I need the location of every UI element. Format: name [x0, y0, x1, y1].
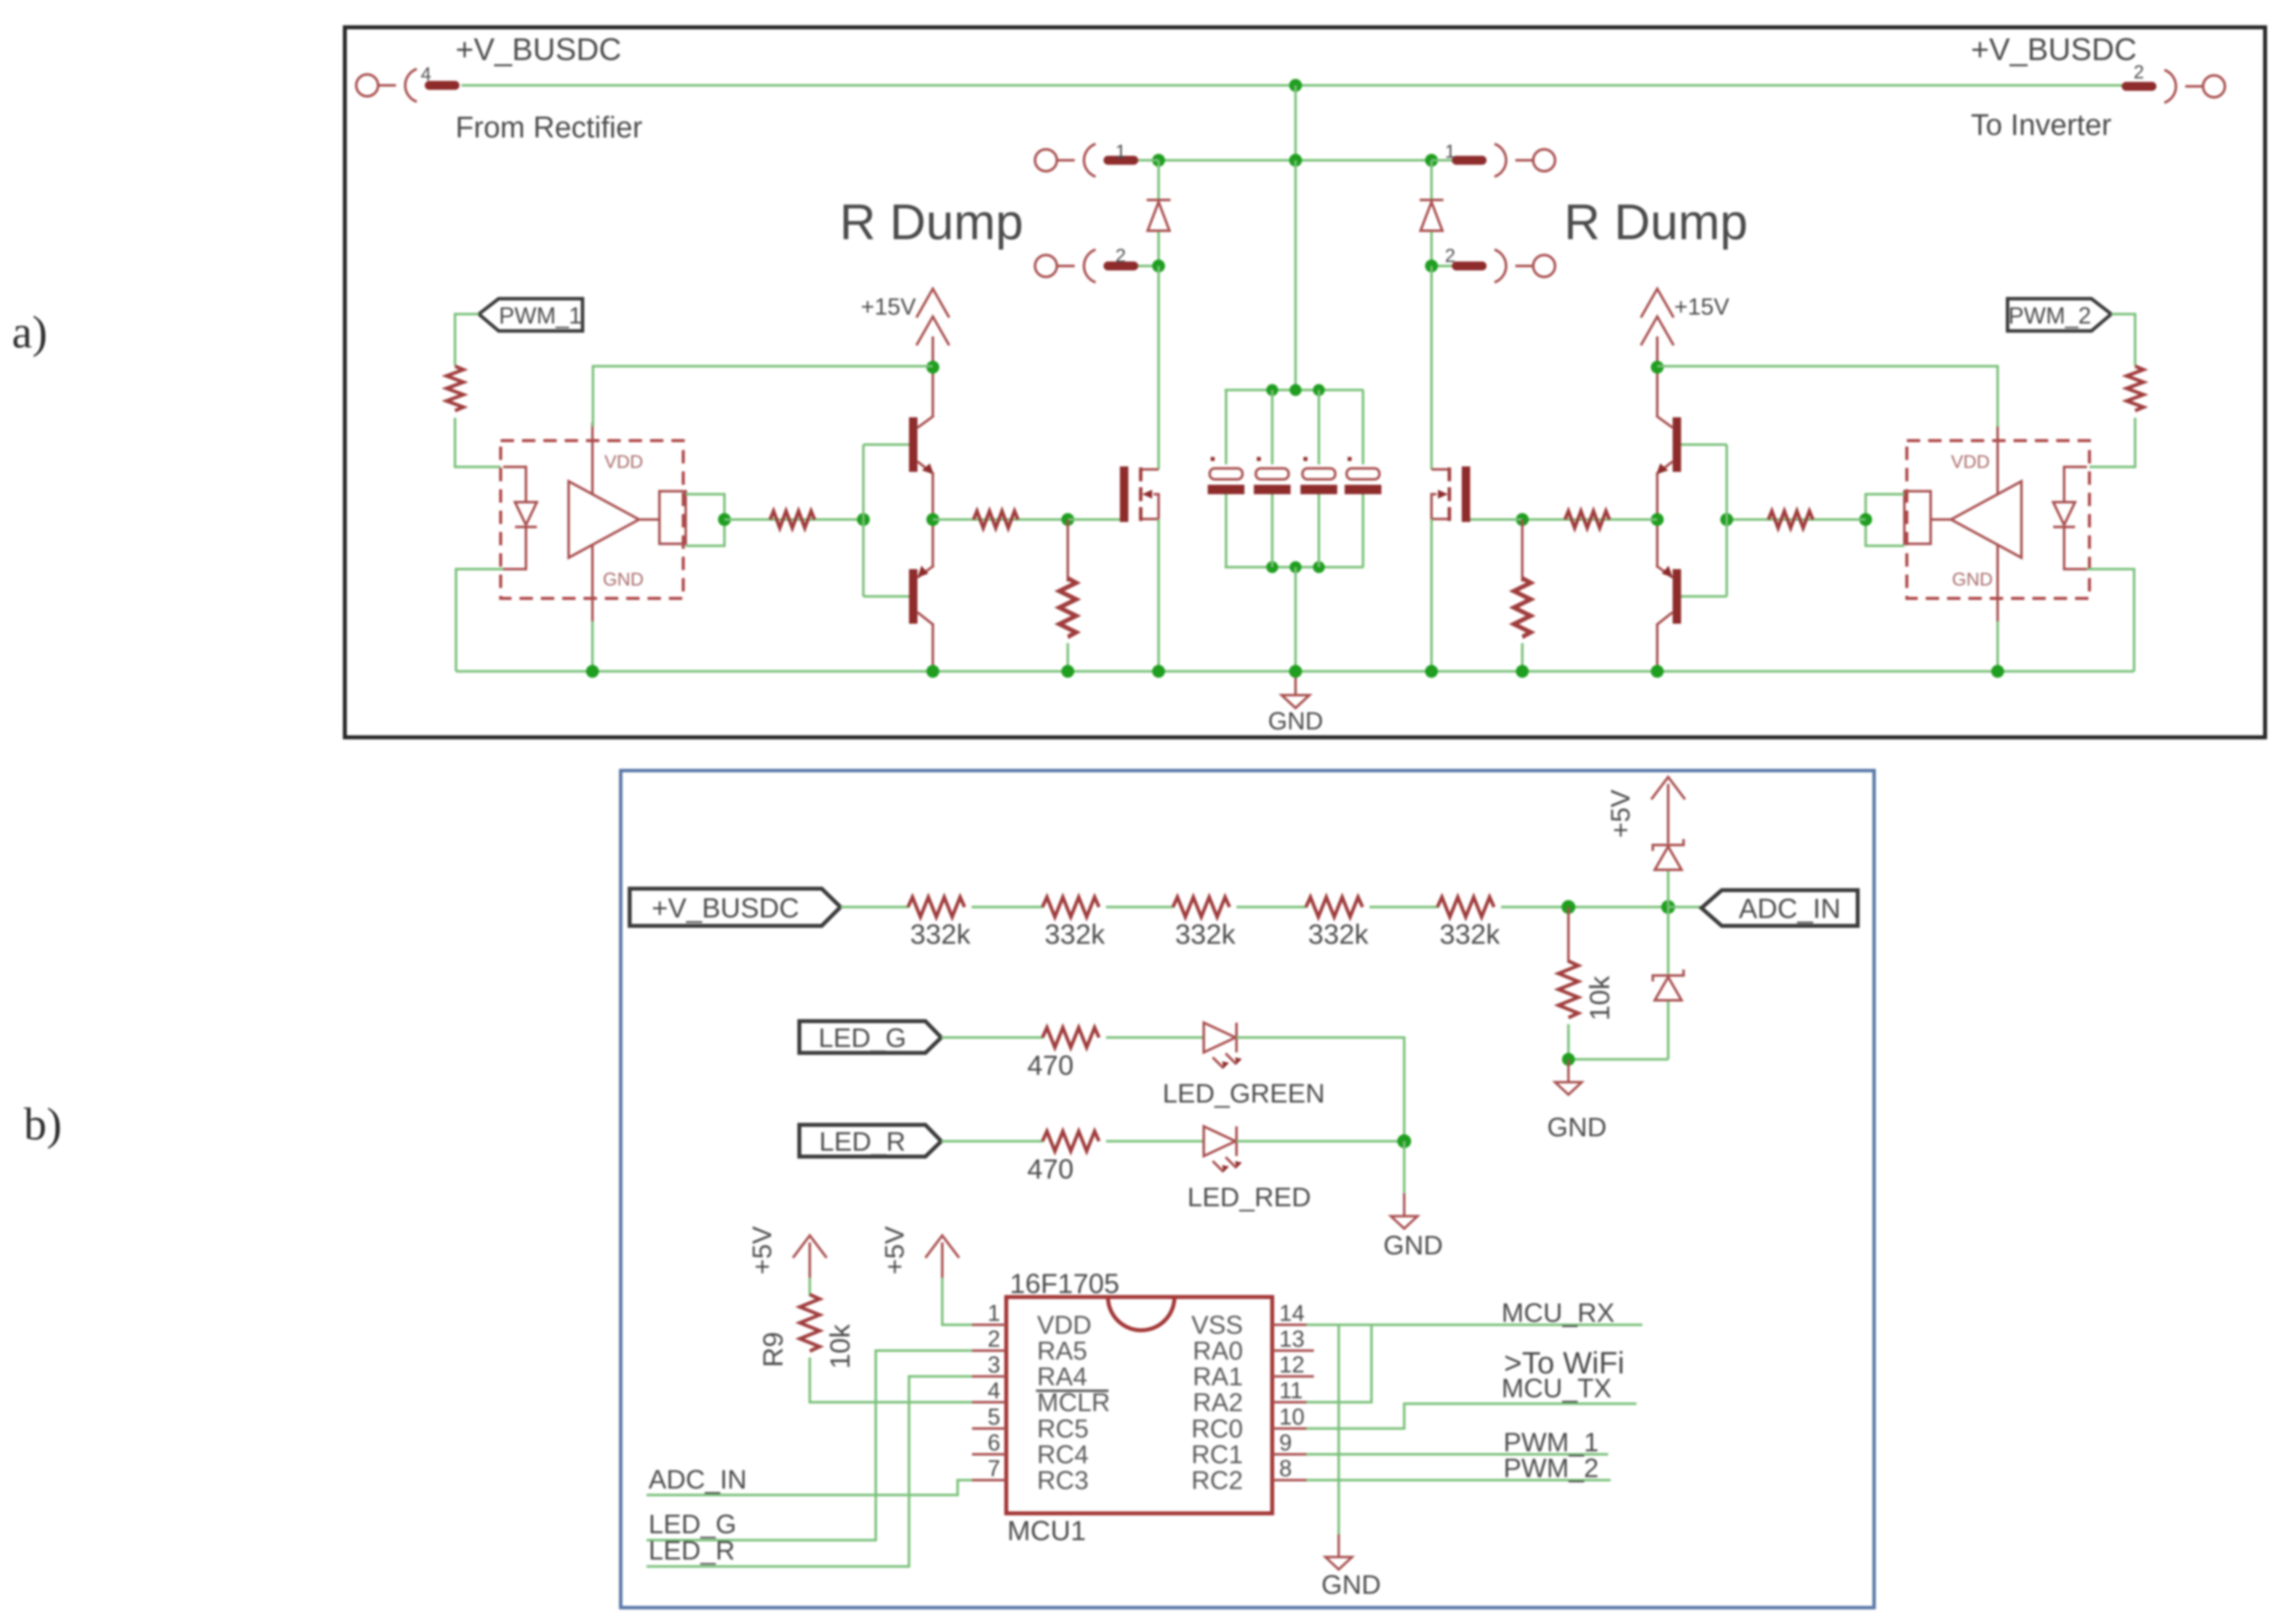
- LED LED_RED: [1204, 1126, 1242, 1172]
- svg-text:RC2: RC2: [1191, 1466, 1243, 1495]
- junction +15V rail: [1651, 361, 1664, 374]
- supply +5V (MCU VDD): [925, 1235, 959, 1291]
- svg-text:13: 13: [1279, 1326, 1304, 1352]
- wire opto U2 LED return to ground rail: [2087, 569, 2134, 671]
- svg-text:470: 470: [1027, 1153, 1073, 1184]
- wire base tie vertical: [1726, 445, 1728, 596]
- wire +15V rail to opto VDD: [593, 366, 933, 427]
- svg-text:8: 8: [1279, 1455, 1292, 1481]
- wire R2-R3: [1106, 906, 1174, 909]
- resistor R-pwm2 (vertical): [2127, 366, 2144, 411]
- svg-text:14: 14: [1279, 1300, 1304, 1326]
- wire opto U2 GND to ground rail: [1997, 621, 1999, 671]
- supply +15V (right): [1641, 289, 1674, 367]
- svg-text:RC1: RC1: [1191, 1440, 1243, 1469]
- wire base tie vertical: [862, 445, 865, 596]
- opto U1 VDD pin: [591, 423, 594, 494]
- wire cap C4 bottom lead: [1363, 494, 1364, 567]
- svg-text:RA0: RA0: [1193, 1337, 1243, 1365]
- wire LED2 to junction: [1236, 1140, 1404, 1143]
- svg-text:12: 12: [1279, 1352, 1304, 1377]
- resistor R-base-right: [1768, 511, 1813, 528]
- svg-text:LED_G: LED_G: [818, 1023, 906, 1053]
- wire Q3 collector to +15V: [1656, 367, 1659, 417]
- wire opto U1 GND to ground rail: [591, 621, 594, 671]
- MCU1 16F1705 package: [1006, 1297, 1272, 1513]
- pin 9 stub: [1272, 1453, 1306, 1456]
- svg-text:+V_BUSDC: +V_BUSDC: [651, 892, 799, 923]
- svg-text:3: 3: [987, 1352, 1000, 1377]
- wire PWM_1 to resistor: [455, 314, 479, 366]
- wire R7 to LED1: [1106, 1037, 1204, 1039]
- capacitor C1: [1208, 457, 1244, 494]
- svg-text:1: 1: [1115, 141, 1126, 162]
- wire VSS ground drop: [1338, 1325, 1340, 1534]
- transistor Q2 PNP (lower): [909, 566, 934, 625]
- svg-text:5: 5: [987, 1404, 1000, 1429]
- pin 5 stub: [972, 1428, 1006, 1430]
- pin 11 stub: [1272, 1401, 1306, 1404]
- svg-text:GND: GND: [1547, 1112, 1607, 1142]
- junction row left: [1152, 154, 1165, 167]
- wire conn2-right stub: [1431, 265, 1452, 267]
- svg-text:VDD: VDD: [1037, 1311, 1092, 1340]
- resistor R3 332k: [1173, 897, 1230, 917]
- pin 13 stub: [1272, 1350, 1314, 1352]
- optocoupler U1 dashed package: [501, 441, 683, 598]
- wire cap C1 bottom lead: [1225, 494, 1226, 567]
- opto U1 input LED: [503, 467, 537, 569]
- svg-text:+15V: +15V: [861, 293, 916, 320]
- junction base tie left: [857, 513, 870, 526]
- wire +V_BUSDC top bus: [461, 84, 2134, 87]
- junction 10k gnd node: [1562, 1053, 1575, 1066]
- optocoupler U2 dashed package: [1907, 441, 2089, 598]
- capacitor C3: [1301, 457, 1337, 494]
- resistor R5 332k: [1437, 897, 1494, 917]
- svg-text:LED_RED: LED_RED: [1187, 1182, 1311, 1212]
- wire junction to ground: [1403, 1141, 1406, 1193]
- svg-text:RA4: RA4: [1037, 1363, 1087, 1391]
- svg-text:RC5: RC5: [1037, 1415, 1089, 1443]
- wire conn1-right stub: [1431, 159, 1452, 162]
- pin 2 stub: [972, 1350, 1006, 1352]
- svg-text:470: 470: [1027, 1049, 1073, 1081]
- wire gate node to MOSFET gate: [1068, 519, 1122, 521]
- wire resistor to opto input: [455, 418, 501, 467]
- panel a border frame: [345, 27, 2265, 737]
- wire ADC node to flag: [1668, 906, 1701, 909]
- svg-text:R Dump: R Dump: [840, 195, 1023, 250]
- svg-text:RC0: RC0: [1191, 1415, 1243, 1443]
- svg-text:RC3: RC3: [1037, 1466, 1089, 1495]
- wire LED_R to pin 3: [647, 1376, 972, 1566]
- junction row centre: [1289, 154, 1302, 167]
- opto U1 amplifier triangle: [569, 481, 639, 558]
- net flag +V_BUSDC: [630, 889, 841, 926]
- svg-text:4: 4: [987, 1377, 1000, 1403]
- pin 6 stub: [972, 1453, 1006, 1456]
- wire centre vertical to capacitor bank: [1295, 160, 1297, 390]
- opto U2 amplifier triangle: [1951, 481, 2021, 558]
- pin 8 stub: [1272, 1479, 1306, 1482]
- pin 1 stub: [972, 1324, 1006, 1326]
- junction T2 source at rail: [1425, 665, 1438, 678]
- svg-text:9: 9: [1279, 1429, 1292, 1455]
- wire Q4 collector to ground rail: [1656, 624, 1659, 671]
- wire LED_G flag to R7: [941, 1037, 1043, 1039]
- wire R-dump connector row: [1159, 159, 1431, 162]
- wire opto output to base resistor: [724, 519, 863, 521]
- wire Q1 collector to +15V: [932, 367, 934, 417]
- svg-text:6: 6: [987, 1429, 1000, 1455]
- net flag PWM_2: [2008, 299, 2111, 331]
- svg-text:RA5: RA5: [1037, 1337, 1087, 1365]
- wire flag to R1: [841, 906, 909, 909]
- resistor R1 332k: [908, 897, 965, 917]
- svg-text:MCU1: MCU1: [1007, 1515, 1086, 1546]
- opto U2 GND pin: [1997, 545, 1999, 621]
- junction opto GND at rail: [1991, 665, 2004, 678]
- svg-text:11: 11: [1279, 1377, 1303, 1403]
- svg-text:2: 2: [987, 1326, 1000, 1352]
- supply +5V (ADC clamp): [1651, 777, 1685, 833]
- wire ground rail: [456, 670, 2134, 673]
- opto U2 output stage square: [1904, 491, 1951, 544]
- svg-text:MCLR: MCLR: [1037, 1388, 1110, 1417]
- junction LED cathodes: [1397, 1134, 1411, 1148]
- net flag LED_G: [799, 1021, 941, 1053]
- wire cap C3 bottom lead: [1318, 494, 1320, 567]
- junction gate node left: [1061, 513, 1074, 526]
- svg-text:MCU_TX: MCU_TX: [1501, 1373, 1612, 1403]
- resistor R-gate-right: [1565, 511, 1610, 528]
- wire pin 8 PWM_2: [1306, 1479, 1611, 1482]
- resistor R7 470: [1042, 1028, 1099, 1047]
- wire gate pulldown bottom lead: [1067, 643, 1069, 671]
- svg-text:332k: 332k: [910, 918, 971, 950]
- wire centre vertical from bus to R-dump row: [1295, 85, 1297, 160]
- wire 10k bottom lead to gnd corner: [1568, 1024, 1668, 1059]
- connector X2 To Inverter (mirrored): [2122, 70, 2225, 103]
- pin 7 stub: [972, 1479, 1006, 1482]
- svg-text:PWM_2: PWM_2: [2008, 302, 2091, 328]
- zener diode D4 (lower clamp): [1653, 970, 1684, 1000]
- wire LED1 to corner: [1236, 1038, 1404, 1141]
- junctions cap bank top: [1266, 384, 1278, 396]
- resistor R-pulldown-left (vertical): [1059, 578, 1076, 637]
- svg-text:From Rectifier: From Rectifier: [455, 111, 643, 144]
- wire left branch conn1 to diode: [1158, 160, 1160, 200]
- wire left branch diode to conn2: [1158, 232, 1160, 266]
- connector X4 From Rectifier: [356, 69, 459, 102]
- wire R8 to LED2: [1106, 1140, 1204, 1143]
- svg-text:2: 2: [2134, 62, 2144, 83]
- resistor R2 332k: [1042, 897, 1099, 917]
- wire gate pulldown bottom lead: [1521, 643, 1524, 671]
- junction pulldown at rail: [1516, 665, 1529, 678]
- opto U1 GND pin: [591, 545, 594, 621]
- resistor R6 10k (vertical): [1559, 961, 1578, 1018]
- svg-text:LED_G: LED_G: [649, 1509, 736, 1539]
- wire pin 11 riser to RX row: [1306, 1325, 1371, 1402]
- ground symbol GND (divider): [1555, 1059, 1582, 1095]
- transistor Q4 PNP (lower right): [1656, 566, 1681, 625]
- svg-text:PWM_1: PWM_1: [499, 302, 582, 328]
- resistor R-gate-left: [974, 511, 1018, 528]
- connector X-dump-left pin 1: [1035, 144, 1138, 177]
- connector X-dump-right pin 1 (mirrored): [1452, 144, 1555, 177]
- net flag LED_R: [799, 1125, 941, 1157]
- net flag PWM_1: [479, 299, 583, 331]
- svg-text:VDD: VDD: [1951, 452, 1990, 472]
- wire centre vertical cap bank to ground rail: [1295, 567, 1297, 671]
- wire pin 9 PWM_1: [1306, 1453, 1608, 1456]
- wire 10k top lead: [1567, 907, 1570, 963]
- svg-text:16F1705: 16F1705: [1010, 1268, 1119, 1299]
- svg-text:VDD: VDD: [604, 452, 643, 472]
- wire opto output loop: [1866, 494, 1904, 546]
- svg-text:10: 10: [1279, 1404, 1304, 1429]
- wire opto output loop: [686, 494, 724, 546]
- junctions cap bank bottom: [1266, 561, 1278, 573]
- svg-text:PWM_2: PWM_2: [1503, 1453, 1599, 1483]
- opto U2 VDD pin: [1997, 423, 1999, 494]
- svg-text:+5V: +5V: [880, 1226, 910, 1275]
- wire PNP base stub: [863, 595, 909, 598]
- wire Q2 collector to ground rail: [932, 624, 934, 671]
- wire ADC node to zener D4: [1667, 907, 1670, 974]
- wire gate pulldown top lead: [1067, 520, 1069, 582]
- wire R4-R5: [1369, 906, 1438, 909]
- LED LED_GREEN: [1204, 1023, 1242, 1068]
- connector X-dump-left pin 2: [1035, 250, 1138, 282]
- wire Q3/Q4 emitter junction: [1656, 472, 1659, 568]
- wire cap bank bottom rail: [1225, 566, 1364, 569]
- pin 10 stub: [1272, 1428, 1306, 1430]
- resistor R8 470: [1042, 1131, 1099, 1151]
- connector X-dump-right pin 2 (mirrored): [1452, 250, 1555, 282]
- wire T1 source to ground rail: [1158, 519, 1160, 671]
- wire +5V to zener D3: [1667, 819, 1670, 844]
- svg-text:To Inverter: To Inverter: [1971, 108, 2111, 141]
- freewheel diode D1 (left): [1147, 200, 1171, 231]
- wire ADC_IN to pin 7: [647, 1480, 972, 1495]
- wire VSS pin 14 to MCU_RX: [1306, 1324, 1642, 1326]
- wire +15V rail to opto VDD: [1657, 366, 1998, 427]
- wire emitter output to gate resistor: [1522, 519, 1657, 521]
- wire opto U1 LED return to ground rail: [456, 569, 503, 671]
- svg-text:+V_BUSDC: +V_BUSDC: [455, 32, 621, 67]
- resistor R-pulldown-right (vertical): [1514, 578, 1531, 637]
- wire NPN base stub: [863, 444, 909, 446]
- junction +15V rail: [926, 361, 939, 374]
- wire LED_G to pin 2: [647, 1351, 972, 1540]
- junction left conn2: [1152, 260, 1165, 272]
- junction divider tap (10k): [1561, 900, 1575, 914]
- svg-text:1: 1: [987, 1300, 1000, 1326]
- svg-text:LED_R: LED_R: [819, 1127, 906, 1157]
- svg-text:2: 2: [1445, 246, 1455, 266]
- svg-text:GND: GND: [1383, 1231, 1443, 1260]
- wire right branch diode to conn2: [1431, 232, 1433, 266]
- wire R3-R4: [1236, 906, 1307, 909]
- opto U2 input LED: [2053, 467, 2087, 569]
- svg-text:GND: GND: [1268, 707, 1323, 735]
- svg-text:4: 4: [421, 64, 431, 85]
- wire R1-R2: [972, 906, 1043, 909]
- pin name MCLR (with overbar): [1036, 1388, 1110, 1417]
- MOSFET T2 (right, mirrored): [1431, 466, 1470, 522]
- wire conn1-left stub: [1138, 159, 1159, 162]
- wire NPN base stub: [1681, 444, 1727, 446]
- capacitor C4: [1345, 457, 1381, 494]
- zener diode D3 (upper clamp): [1653, 839, 1684, 870]
- junction ADC node: [1661, 900, 1675, 914]
- wire T2 source to ground rail: [1431, 519, 1433, 671]
- junction opto GND at rail: [586, 665, 599, 678]
- wire resistor to opto input: [2089, 418, 2135, 467]
- wire pin 10 to MCU_TX: [1306, 1404, 1636, 1429]
- svg-text:GND: GND: [603, 569, 644, 589]
- pin 3 stub: [972, 1375, 1006, 1378]
- wire Q1/Q2 emitter junction: [932, 472, 934, 568]
- junction T1 source at rail: [1152, 665, 1165, 678]
- junction ground centre: [1289, 665, 1302, 678]
- wire PNP base stub: [1681, 595, 1727, 598]
- wire cap C4 top lead: [1363, 390, 1364, 464]
- MOSFET T1 (left): [1120, 466, 1159, 522]
- net flag ADC_IN: [1701, 890, 1858, 926]
- supply +5V (R9 pullup): [793, 1235, 827, 1291]
- junction Q4 collector at rail: [1651, 665, 1664, 678]
- junction emitter output: [926, 513, 939, 526]
- junction emitter output: [1651, 513, 1664, 526]
- svg-text:a): a): [12, 307, 47, 357]
- capacitor C2: [1254, 457, 1291, 494]
- svg-text:332k: 332k: [1308, 918, 1368, 950]
- svg-text:332k: 332k: [1439, 918, 1500, 950]
- wire right branch conn2 down to MOSFET drain: [1431, 266, 1433, 469]
- svg-text:332k: 332k: [1175, 918, 1236, 950]
- ground symbol GND (MCU): [1325, 1534, 1352, 1569]
- wire R9 to MCLR pin 4: [810, 1358, 972, 1402]
- junction Q2 collector at rail: [926, 665, 939, 678]
- pin 14 stub: [1272, 1324, 1306, 1326]
- svg-text:MCU_RX: MCU_RX: [1501, 1298, 1615, 1328]
- wire opto output to base resistor: [1727, 519, 1866, 521]
- wire PWM_2 to resistor: [2111, 314, 2135, 366]
- junction opto output: [718, 513, 731, 526]
- wire cap C3 top lead: [1318, 390, 1320, 464]
- opto U1 output stage square: [639, 491, 686, 544]
- junction right conn2: [1425, 260, 1438, 272]
- svg-text:LED_R: LED_R: [649, 1536, 735, 1565]
- wire R5 to divider node: [1501, 906, 1668, 909]
- supply +15V (left): [916, 289, 949, 367]
- svg-text:332k: 332k: [1044, 918, 1105, 950]
- svg-text:+5V: +5V: [747, 1226, 777, 1275]
- freewheel diode D2 (right): [1420, 200, 1443, 231]
- svg-text:R Dump: R Dump: [1564, 195, 1748, 250]
- resistor R4 332k: [1306, 897, 1363, 917]
- wire emitter output to gate resistor: [933, 519, 1068, 521]
- pin 12 stub: [1272, 1375, 1314, 1378]
- svg-text:ADC_IN: ADC_IN: [649, 1465, 747, 1494]
- resistor R9 10k (vertical): [800, 1295, 820, 1351]
- svg-text:GND: GND: [1952, 569, 1993, 589]
- svg-text:+5V: +5V: [1606, 789, 1635, 838]
- wire left branch conn2 down to MOSFET drain: [1158, 266, 1160, 469]
- svg-text:7: 7: [987, 1455, 1000, 1481]
- wire LED_R flag to R8: [941, 1140, 1043, 1143]
- ground symbol GND (LEDs): [1391, 1193, 1418, 1229]
- svg-text:b): b): [24, 1099, 62, 1149]
- ground symbol GND (panel a): [1282, 671, 1309, 708]
- junction row right: [1425, 154, 1438, 167]
- pin 4 stub: [972, 1401, 1006, 1404]
- svg-text:PWM_1: PWM_1: [1503, 1428, 1599, 1457]
- svg-text:VSS: VSS: [1191, 1311, 1243, 1340]
- svg-text:10k: 10k: [824, 1324, 855, 1369]
- svg-text:R9: R9: [757, 1332, 788, 1367]
- resistor R-pwm1 (vertical): [447, 366, 463, 411]
- wire cap C2 top lead: [1271, 390, 1274, 464]
- wire conn2-left stub: [1138, 265, 1159, 267]
- svg-text:LED_GREEN: LED_GREEN: [1163, 1079, 1325, 1108]
- svg-text:+V_BUSDC: +V_BUSDC: [1971, 32, 2137, 67]
- svg-text:RA1: RA1: [1193, 1363, 1243, 1391]
- wire gate node to MOSFET gate: [1468, 519, 1522, 521]
- svg-text:RA2: RA2: [1193, 1388, 1243, 1417]
- transistor Q1 NPN (upper): [909, 416, 934, 474]
- svg-text:GND: GND: [1321, 1570, 1381, 1600]
- wire cap bank top rail: [1225, 389, 1364, 391]
- panel b border frame: [621, 771, 1874, 1608]
- svg-text:2: 2: [1115, 246, 1126, 266]
- svg-text:+15V: +15V: [1674, 293, 1730, 320]
- wire zener D4 to gnd corner: [1667, 1001, 1670, 1059]
- svg-text:ADC_IN: ADC_IN: [1739, 893, 1840, 924]
- wire cap C2 bottom lead: [1271, 494, 1274, 567]
- wire cap C1 top lead: [1225, 390, 1226, 464]
- wire +5V to VDD pin 1: [942, 1278, 972, 1325]
- junction base tie right: [1720, 513, 1733, 526]
- junction gate node right: [1516, 513, 1529, 526]
- wire +5V to R9: [809, 1278, 811, 1296]
- wire zener D3 to ADC node: [1667, 871, 1670, 907]
- junction pulldown at rail: [1061, 665, 1074, 678]
- junction on bus at centre: [1289, 79, 1302, 92]
- resistor R-base-left: [770, 511, 815, 528]
- wire right branch conn1 to diode: [1431, 160, 1433, 200]
- wire gate pulldown top lead: [1521, 520, 1524, 582]
- junction opto output: [1859, 513, 1872, 526]
- svg-text:RC4: RC4: [1037, 1440, 1089, 1469]
- transistor Q3 NPN (upper right): [1656, 416, 1681, 474]
- svg-text:10k: 10k: [1584, 975, 1615, 1021]
